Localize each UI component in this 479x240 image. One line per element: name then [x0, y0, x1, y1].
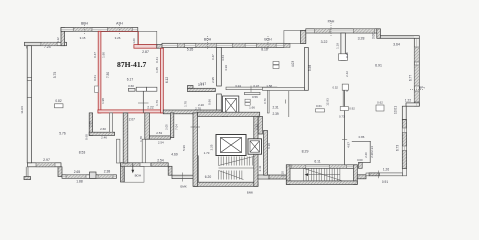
svg-text:1.19: 1.19 [335, 43, 339, 49]
wall top-left horizontal [25, 42, 67, 45]
svg-text:1.70: 1.70 [139, 136, 143, 142]
svg-text:0.96: 0.96 [207, 99, 211, 105]
svg-text:1.70: 1.70 [183, 101, 187, 107]
svg-text:2.07: 2.07 [129, 118, 135, 122]
svg-text:1.90: 1.90 [101, 52, 105, 58]
stair2 top wall [286, 165, 357, 169]
svg-text:2.54: 2.54 [157, 158, 164, 162]
svg-text:2.22: 2.22 [147, 106, 154, 110]
svg-text:2.87: 2.87 [142, 50, 149, 54]
small box1 [273, 62, 279, 65]
wall top level4 [306, 29, 377, 33]
svg-text:АЗН: АЗН [116, 22, 123, 26]
niche left wall [121, 163, 125, 182]
red unit bottom wall [98, 110, 163, 113]
svg-text:5.76: 5.76 [59, 132, 66, 136]
fixture box [128, 88, 135, 91]
corridor wall double part [342, 90, 344, 106]
dark wall x172 [170, 113, 173, 138]
svg-text:2.25: 2.25 [210, 144, 214, 150]
svg-text:3.22: 3.22 [321, 40, 328, 44]
svg-text:0.60: 0.60 [357, 158, 363, 162]
tick box 0.92 [340, 107, 348, 111]
svg-text:1.10: 1.10 [281, 171, 285, 177]
svg-text:7.30: 7.30 [106, 72, 110, 78]
tick BPch [410, 89, 423, 91]
shaft2 X [250, 141, 260, 152]
svg-text:0.73: 0.73 [339, 115, 345, 119]
svg-text:0.60: 0.60 [85, 134, 89, 140]
stair2 bottom wall [286, 181, 357, 185]
pier [414, 91, 419, 102]
left fixture [95, 86, 99, 92]
svg-text:ВОН: ВОН [264, 38, 272, 42]
porch rect [123, 166, 144, 182]
wall x306 vertical [305, 48, 309, 91]
svg-text:0.62: 0.62 [377, 101, 383, 105]
svg-text:3.24: 3.24 [235, 84, 241, 88]
pier [354, 29, 375, 33]
counter box2 [147, 87, 157, 91]
tick on wall C [182, 173, 184, 182]
svg-text:2.41: 2.41 [258, 165, 262, 171]
svg-text:0.41: 0.41 [155, 57, 159, 63]
svg-text:1.65: 1.65 [155, 67, 159, 73]
wall x147 [145, 113, 150, 139]
elevator outer [216, 135, 246, 156]
svg-text:2.54: 2.54 [158, 140, 164, 144]
closet connector wall [358, 163, 362, 169]
svg-text:7.24: 7.24 [44, 45, 51, 49]
svg-text:2.60: 2.60 [100, 127, 106, 131]
wall C [172, 175, 194, 178]
vent shaft outer [223, 96, 239, 115]
tick PAH [330, 23, 332, 36]
tick [138, 102, 149, 104]
svg-text:БМК: БМК [247, 191, 253, 195]
pier level3 [196, 43, 217, 47]
jog horizontal wall [406, 103, 419, 106]
svg-text:2.95: 2.95 [211, 77, 215, 83]
svg-text:6.12: 6.12 [165, 77, 169, 83]
svg-text:6.77: 6.77 [409, 75, 413, 81]
svg-text:6.20: 6.20 [205, 175, 212, 179]
svg-text:5.96: 5.96 [182, 145, 186, 151]
box 0.82 [55, 104, 64, 108]
svg-text:3.64: 3.64 [221, 55, 225, 61]
bottom-right hatched wall piece [369, 173, 379, 176]
closet left wall [89, 113, 92, 135]
tick on corridor wall [342, 139, 347, 141]
svg-text:6.11: 6.11 [314, 160, 320, 164]
tick [250, 86, 252, 94]
svg-text:2.31: 2.31 [272, 105, 278, 109]
left foot [24, 177, 31, 180]
tick BOH [207, 36, 209, 50]
notch [188, 86, 194, 89]
tick [378, 171, 380, 179]
bottom-right thin wall [379, 173, 402, 176]
box 0.62 [376, 105, 384, 111]
red unit left wall [98, 31, 101, 113]
tick BOH2 [267, 36, 269, 50]
wall B thin part [140, 163, 151, 167]
svg-text:5.75: 5.75 [53, 72, 57, 79]
svg-text:1.26: 1.26 [383, 168, 389, 172]
left wall tick [27, 77, 31, 79]
shaft2 outer [248, 139, 262, 154]
svg-text:6.10: 6.10 [267, 143, 271, 149]
svg-text:2.46: 2.46 [101, 136, 107, 140]
stub wall white part [258, 175, 269, 179]
stub wall gray part [269, 175, 286, 179]
svg-text:4.69: 4.69 [171, 153, 178, 157]
svg-text:2.38: 2.38 [370, 152, 374, 158]
stair1 lower flight treads [219, 168, 254, 180]
pier at protrusion [284, 43, 290, 47]
tick BBH [84, 25, 86, 35]
svg-text:2.42: 2.42 [345, 71, 349, 77]
svg-text:2.53: 2.53 [156, 131, 162, 135]
left foot line [25, 167, 27, 178]
svg-text:1.66: 1.66 [249, 105, 255, 109]
pier [73, 28, 92, 32]
closet right wall [109, 113, 112, 132]
window mid-lines [25, 43, 41, 45]
svg-text:1.88: 1.88 [76, 179, 83, 183]
svg-text:0.86: 0.86 [359, 135, 365, 139]
svg-text:0.82: 0.82 [55, 99, 61, 103]
sill ticks [26, 46, 28, 49]
svg-text:2.38: 2.38 [104, 170, 111, 174]
stub wall x343 [341, 33, 345, 60]
wall corner step up [61, 28, 65, 46]
svg-text:1.76: 1.76 [155, 100, 159, 106]
vent shaft X [225, 98, 236, 112]
step wall down [58, 167, 62, 177]
pier [66, 175, 86, 179]
wall top level2 [61, 28, 138, 32]
pier [414, 65, 419, 86]
stair1 bottom wall [194, 182, 258, 186]
bay right pier [301, 31, 306, 44]
corridor right wall line [344, 90, 346, 165]
tiny box1 [245, 99, 250, 102]
small box2 [273, 65, 279, 69]
pier [108, 28, 133, 32]
wall B hatched [151, 163, 168, 167]
wall below lobby [258, 116, 262, 134]
stair2 left wall [286, 165, 290, 185]
wall top level3 [162, 43, 284, 47]
svg-text:11.63: 11.63 [20, 106, 24, 114]
svg-text:0.60: 0.60 [128, 84, 134, 88]
tick A3H [119, 25, 121, 35]
bay protrusion [284, 31, 306, 44]
tiny box2 [245, 103, 250, 106]
svg-text:6.91: 6.91 [375, 64, 382, 68]
svg-text:БМК: БМК [180, 184, 186, 188]
svg-text:0.47: 0.47 [253, 84, 259, 88]
svg-text:0.52: 0.52 [333, 86, 339, 90]
svg-text:3.77: 3.77 [198, 83, 204, 87]
tick below wall 4.03 [285, 100, 287, 104]
svg-text:0.45: 0.45 [345, 52, 349, 58]
svg-text:1.98: 1.98 [101, 98, 105, 104]
tick on x195 wall [191, 126, 201, 128]
red unit top-right wall [134, 45, 157, 49]
left room bottom wall [28, 163, 62, 167]
svg-text:2.70: 2.70 [195, 107, 201, 111]
svg-text:6.17: 6.17 [127, 78, 134, 82]
wall top-right thin [380, 36, 419, 39]
closet bottom line [358, 162, 370, 164]
svg-text:3.28: 3.28 [358, 37, 365, 41]
thin wall room 2.31 right [288, 91, 290, 117]
svg-text:0.92: 0.92 [349, 107, 355, 111]
box 0.61 [316, 109, 325, 112]
svg-text:8.29: 8.29 [302, 149, 309, 153]
niche top wall [121, 163, 144, 167]
svg-text:0.56: 0.56 [252, 95, 258, 99]
svg-text:0.61: 0.61 [93, 75, 97, 81]
svg-text:6.73: 6.73 [396, 145, 400, 151]
step down wall [168, 166, 172, 175]
box at top of corridor wall [342, 84, 348, 90]
vestibule left thin wall [117, 139, 120, 163]
svg-text:1.73: 1.73 [204, 151, 210, 155]
stair2 right stub wall [357, 175, 366, 179]
vertical wall x217 upper [217, 48, 222, 87]
stair2 treads [304, 168, 343, 181]
svg-text:1.75: 1.75 [89, 121, 93, 127]
svg-text:2.65: 2.65 [74, 170, 81, 174]
counter box1 [136, 87, 146, 91]
svg-text:7.04: 7.04 [174, 124, 178, 130]
box at stub bottom [339, 54, 348, 61]
svg-text:4.03: 4.03 [291, 61, 295, 67]
svg-text:0.76: 0.76 [263, 98, 267, 104]
pier [329, 165, 346, 169]
pier level3 [178, 43, 185, 47]
lobby thin wall top [226, 87, 277, 90]
entrance arrow [132, 164, 134, 172]
stair1 left wall [194, 156, 199, 187]
svg-text:87Н-41.7: 87Н-41.7 [117, 60, 147, 69]
svg-text:2.97: 2.97 [43, 158, 50, 162]
svg-text:8.16: 8.16 [261, 48, 268, 52]
pier [98, 175, 113, 179]
lobby bottom wall [198, 112, 260, 116]
thin wall y88 right part [262, 87, 304, 90]
svg-text:2.20: 2.20 [364, 152, 368, 158]
stair2 right wall [354, 165, 358, 185]
red edge of step [137, 31, 139, 44]
pier level3 [233, 43, 246, 47]
black wall below rooms [163, 110, 221, 114]
closet top line [352, 140, 371, 142]
partition below counter [142, 91, 144, 113]
svg-text:12.93: 12.93 [325, 98, 329, 106]
svg-text:13.01: 13.01 [393, 106, 397, 114]
gap [402, 128, 406, 133]
svg-text:1.12: 1.12 [56, 37, 60, 43]
svg-text:3.00: 3.00 [372, 33, 376, 39]
svg-text:РАН: РАН [328, 20, 335, 24]
room 2.31 left wall [267, 90, 269, 113]
svg-text:0.91: 0.91 [382, 180, 388, 184]
svg-text:5.35: 5.35 [187, 48, 194, 52]
pier [292, 165, 306, 169]
svg-text:ВОН: ВОН [204, 38, 212, 42]
svg-text:3.64: 3.64 [393, 43, 400, 47]
svg-text:2.39: 2.39 [272, 112, 278, 116]
svg-text:0.47: 0.47 [211, 54, 215, 60]
svg-text:ВВН: ВВН [81, 22, 89, 26]
gray wall piece [157, 45, 164, 49]
svg-text:2.05: 2.05 [164, 124, 168, 130]
red unit right wall [161, 48, 164, 113]
stair1 upper flight treads [219, 157, 254, 166]
jog vertical wall [402, 106, 406, 119]
vestibule right thin wall [142, 139, 146, 163]
svg-text:2.34: 2.34 [370, 146, 374, 152]
closet right line [369, 141, 371, 163]
svg-text:3.26: 3.26 [115, 36, 121, 40]
svg-text:4.39: 4.39 [224, 65, 228, 71]
left wall tick2 [27, 97, 31, 99]
red top edge of unit [98, 31, 138, 33]
svg-text:0.61: 0.61 [316, 104, 322, 108]
corner step down [377, 29, 381, 39]
bottom wall A [62, 175, 116, 179]
pier box [90, 172, 97, 178]
right wall lower [402, 120, 406, 169]
pier [36, 163, 55, 167]
wall right of unit horiz [188, 88, 216, 91]
closet bottom wall [89, 132, 114, 135]
elevator X [221, 138, 242, 153]
thin connector [366, 173, 369, 176]
wall y137 [149, 136, 170, 139]
wall x265 [264, 131, 268, 176]
svg-text:1.22: 1.22 [405, 99, 411, 103]
thick wall x125 [123, 113, 128, 163]
svg-text:5.98: 5.98 [308, 65, 312, 71]
svg-text:4.87: 4.87 [346, 142, 350, 148]
svg-text:ВОН: ВОН [135, 174, 141, 178]
gap [402, 146, 406, 151]
svg-text:1.60: 1.60 [132, 38, 136, 44]
svg-text:2.23: 2.23 [254, 124, 258, 130]
svg-text:3.15: 3.15 [80, 36, 86, 40]
balcony step rect [138, 31, 157, 44]
pier level3 [256, 43, 276, 47]
pier top-left [41, 42, 57, 45]
vertical wall x217 lower [217, 94, 222, 113]
stair1 right wall [254, 116, 258, 186]
corner thin piece [403, 169, 407, 176]
pier [314, 29, 330, 33]
svg-text:0.47: 0.47 [93, 52, 97, 58]
lobby thin wall 2 [245, 92, 261, 94]
right wall upper [414, 38, 419, 106]
svg-text:ВРч: ВРч [419, 86, 425, 90]
pier [414, 47, 419, 62]
left exterior wall [27, 46, 31, 163]
svg-text:8.53: 8.53 [79, 150, 86, 154]
wall x195 long [193, 113, 198, 186]
